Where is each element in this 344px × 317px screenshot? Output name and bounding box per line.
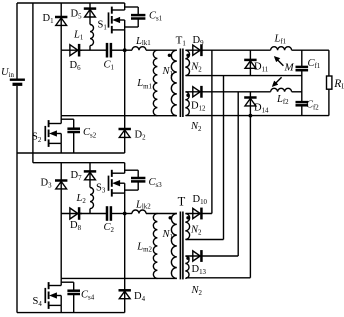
wire clamp leg bottom cell bbox=[60, 214, 62, 279]
diode D5 bbox=[84, 7, 96, 10]
T1 secondary2 polarity dot bbox=[186, 94, 189, 97]
wire C1 to node A bbox=[111, 49, 125, 51]
node B junction bbox=[123, 212, 127, 216]
diode D11 bbox=[244, 59, 256, 62]
T1 primary polarity dot bbox=[168, 54, 171, 57]
load resistor RL bbox=[328, 50, 330, 76]
wire T1 primary bottom bbox=[61, 115, 177, 117]
wire T2 sec2 bottom bbox=[186, 277, 250, 279]
snubber capacitor Cs4 bbox=[61, 281, 73, 283]
wire D8 to C2 bbox=[80, 213, 107, 215]
capacitor C1 bbox=[106, 43, 109, 58]
inductor Lf1 bbox=[271, 47, 292, 50]
diode D8 bbox=[70, 208, 78, 219]
wire top rail bbox=[17, 2, 125, 4]
T2 primary polarity dot bbox=[169, 216, 172, 219]
svg-text:T: T bbox=[178, 194, 186, 208]
input source U_in positive rail bbox=[16, 3, 18, 79]
diode D6 bbox=[70, 45, 78, 56]
T1 secondary1 polarity dot bbox=[186, 54, 189, 57]
inductor Lm2 magnetizing bbox=[153, 214, 157, 279]
inductor Llk1 bbox=[132, 47, 146, 50]
transformer T1 secondary 1 N2 bbox=[185, 50, 189, 75]
wire T2 sec1 bottom bbox=[186, 239, 224, 241]
diode D13 bbox=[193, 251, 200, 261]
coupling arrow to Lf2 bbox=[275, 77, 281, 83]
wire bottom cell top rail bbox=[33, 162, 125, 164]
transformer T2 core bbox=[179, 212, 181, 280]
wire bottom bus bbox=[186, 115, 329, 117]
wire mid bus bbox=[186, 75, 302, 77]
snubber capacitor Cs3 bbox=[125, 169, 139, 171]
transformer T1 secondary 2 N2 bbox=[185, 92, 189, 116]
node A junction bbox=[123, 48, 127, 52]
diode D14 bbox=[244, 96, 256, 99]
diode D4 bbox=[119, 289, 131, 292]
diode D3 bbox=[55, 179, 67, 182]
transformer T2 secondary 2 N2 bbox=[185, 256, 189, 278]
wire D10 cathode riser bbox=[211, 50, 213, 213]
transformer T1 core bbox=[179, 49, 181, 118]
transformer T2 secondary 1 N2 bbox=[185, 214, 189, 240]
T2 secondary1 polarity dot bbox=[186, 216, 189, 219]
inductor Llk2 bbox=[132, 210, 146, 213]
transformer T2 primary N1 bbox=[171, 214, 176, 279]
bottom bus junction dot bbox=[249, 114, 253, 118]
snubber capacitor Cs1 bbox=[125, 6, 139, 8]
wire clamp leg bbox=[60, 50, 62, 116]
mosfet S2 bbox=[44, 126, 46, 141]
inductor Lf2 bbox=[271, 88, 292, 92]
coupling arrow to Lf1 bbox=[277, 60, 283, 66]
battery U_in long plate bbox=[10, 78, 25, 80]
diode D2 bbox=[119, 128, 131, 131]
inductor L1 bbox=[89, 17, 91, 25]
wire row1 Lf1 to load bbox=[292, 49, 329, 51]
wire D6 to C1 bbox=[80, 49, 107, 51]
T2 secondary2 polarity dot bbox=[186, 257, 189, 260]
diode D12 bbox=[193, 87, 200, 97]
diode D7 bbox=[84, 170, 96, 173]
capacitor Cf1 bbox=[301, 50, 303, 67]
transformer T1 primary N1 bbox=[171, 50, 176, 116]
battery U_in short plate bbox=[13, 83, 23, 86]
diode D1 bbox=[55, 16, 67, 19]
mosfet S3 bbox=[108, 176, 110, 191]
wire S4 source return bbox=[17, 312, 125, 314]
wire positive feed rail to bottom cell bbox=[32, 3, 34, 163]
snubber capacitor Cs2 bbox=[61, 118, 73, 120]
capacitor C2 bbox=[106, 206, 109, 221]
wire row2 D12 to Lf2 bbox=[202, 91, 270, 93]
diode D10 bbox=[193, 208, 200, 218]
wire row2 Lf2 to mid node bbox=[292, 91, 302, 93]
mosfet S1 bbox=[108, 12, 110, 27]
wire S2 source return bbox=[17, 152, 125, 154]
wire C2 to node B bbox=[111, 213, 125, 215]
inductor Lm1 magnetizing bbox=[153, 50, 157, 116]
svg-text:M: M bbox=[284, 62, 295, 74]
diode D9 bbox=[193, 45, 200, 55]
input source U_in negative rail bbox=[16, 86, 18, 313]
wire D13 cathode riser bbox=[237, 92, 239, 256]
wire row1 D9 to Lf1 bbox=[202, 49, 270, 51]
capacitor Cf2 bbox=[296, 101, 309, 104]
inductor L2 bbox=[89, 180, 91, 188]
wire T2 primary bottom bbox=[61, 277, 177, 279]
mosfet S4 bbox=[44, 288, 46, 303]
wire T2 sec1 return riser bbox=[223, 76, 225, 240]
wire T2 sec2 return riser bbox=[249, 116, 251, 278]
